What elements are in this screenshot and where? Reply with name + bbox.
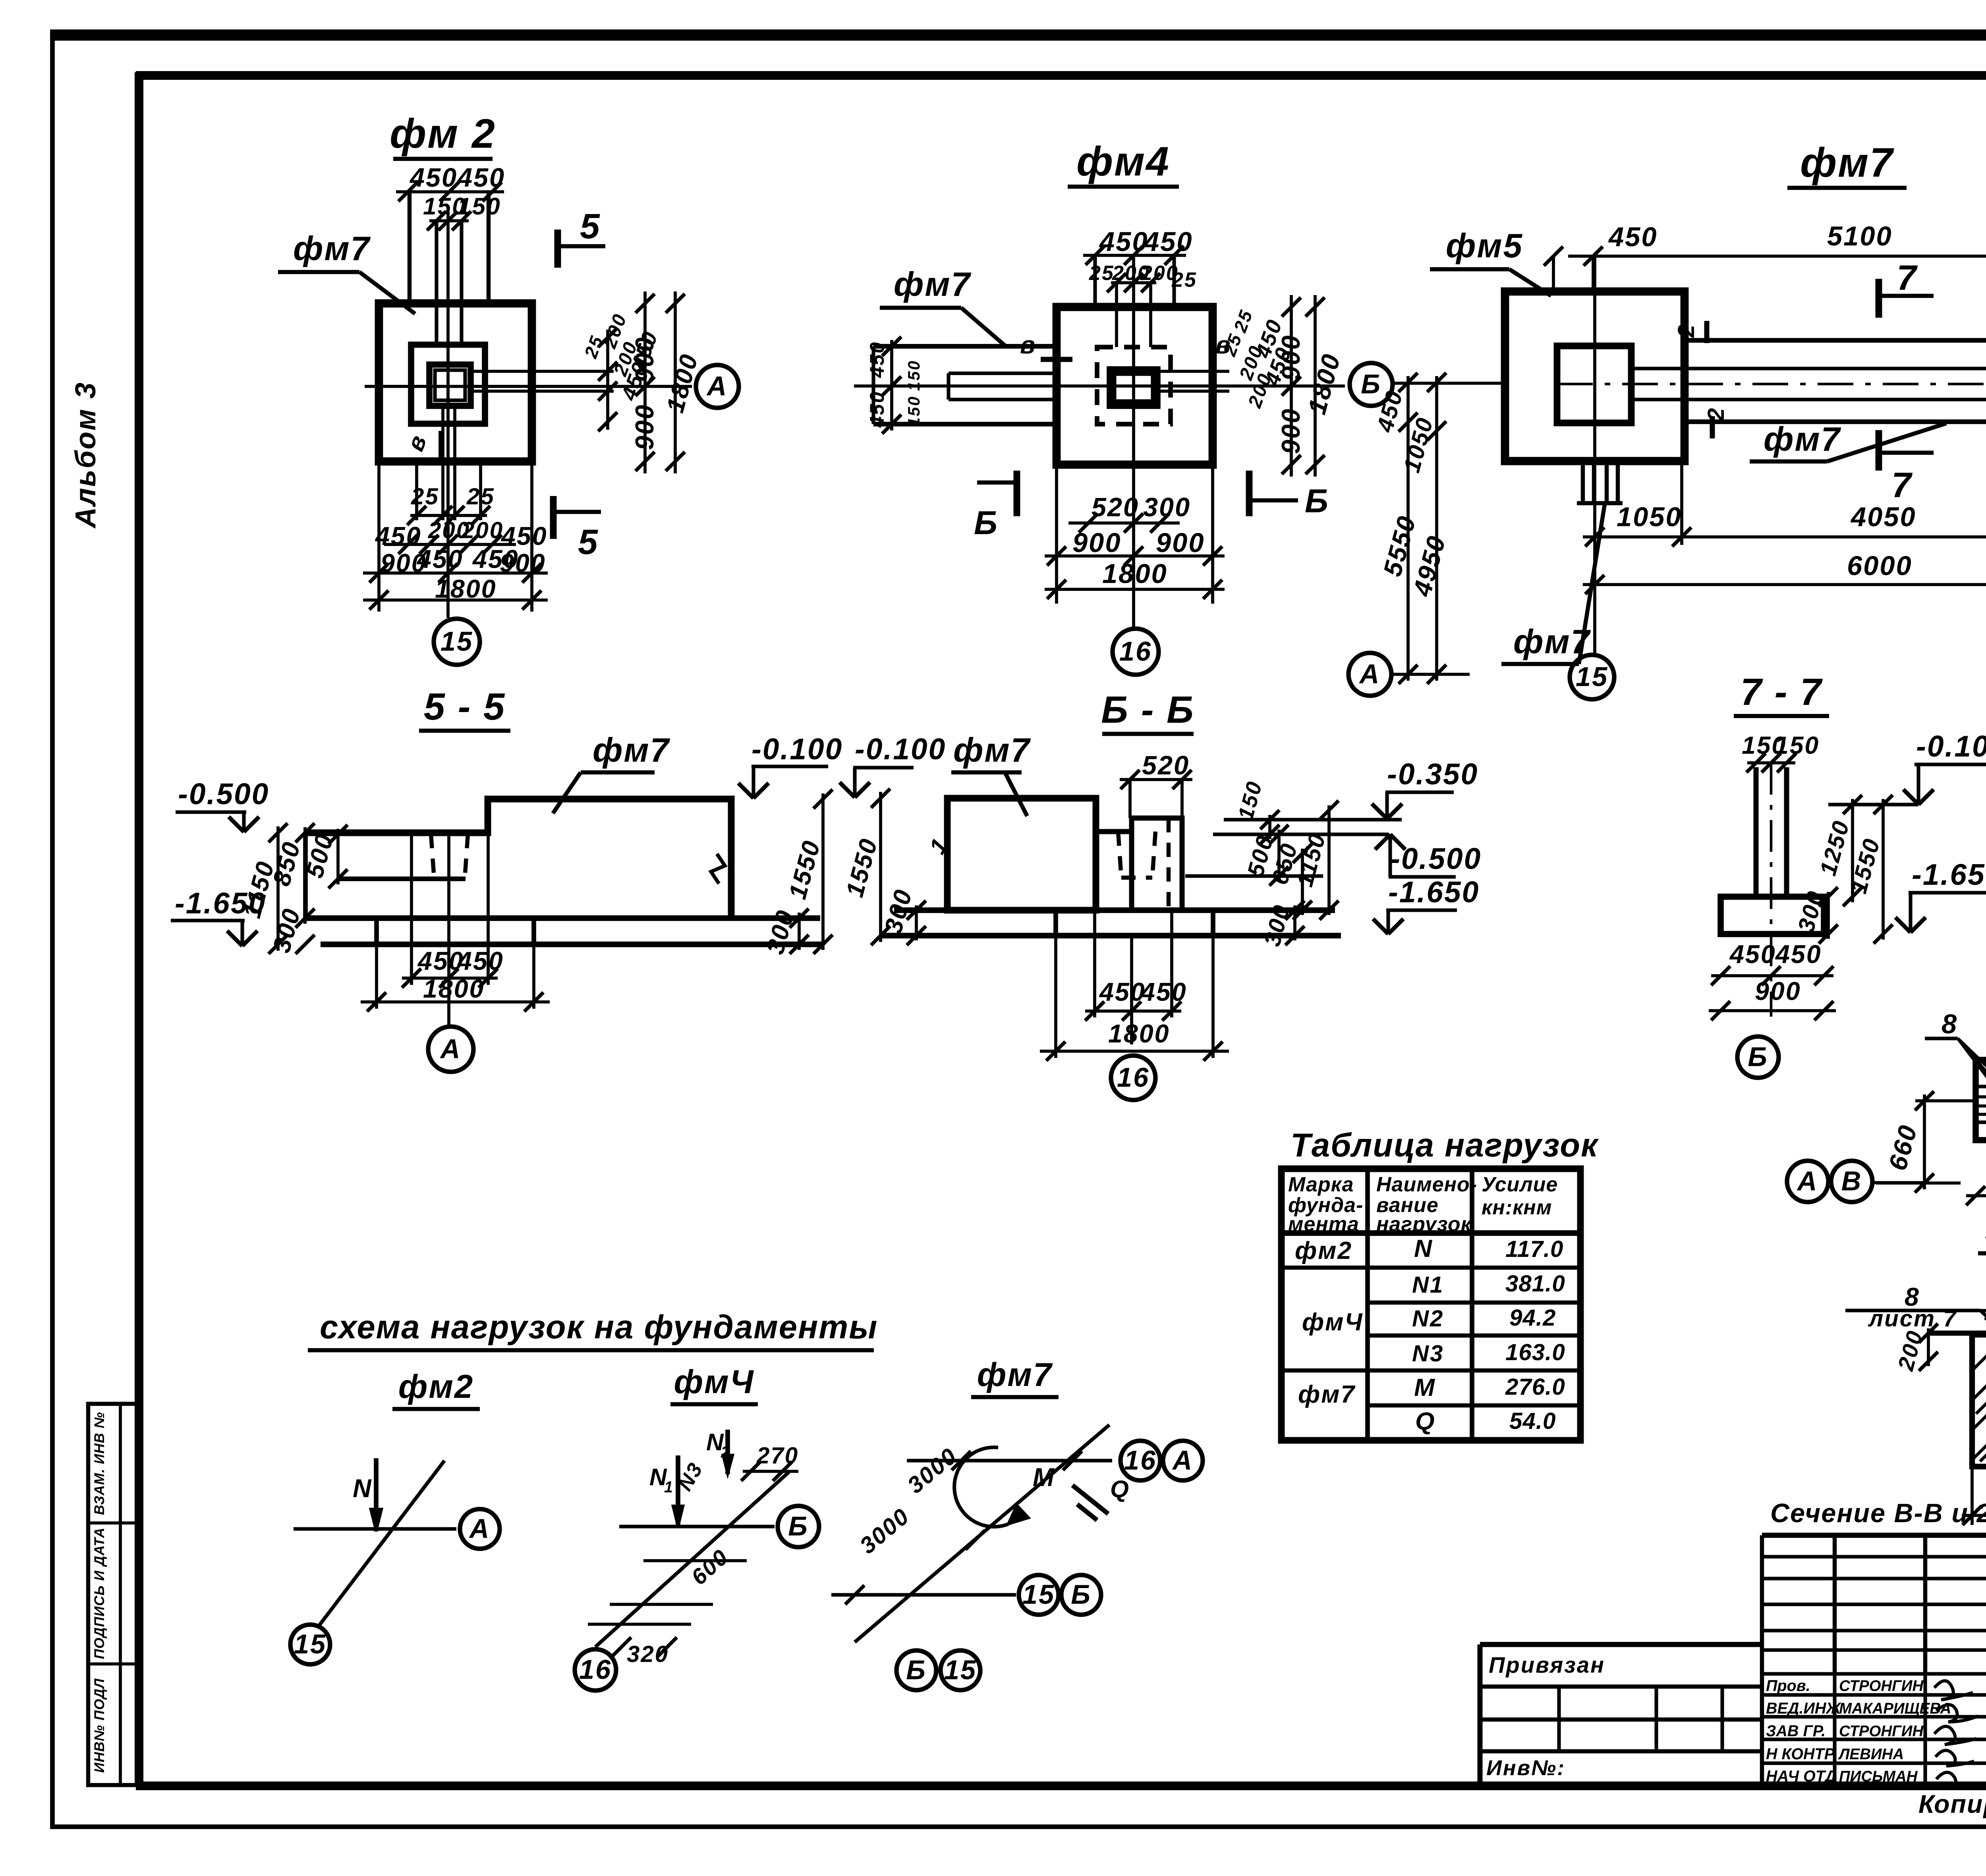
svg-text:450: 450	[1608, 222, 1658, 252]
svg-text:Б: Б	[1071, 1579, 1092, 1610]
svg-text:фм4: фм4	[1076, 139, 1170, 185]
svg-text:-1.650: -1.650	[1388, 875, 1480, 909]
svg-text:450: 450	[1099, 226, 1149, 257]
svg-text:450: 450	[1775, 940, 1822, 969]
plan FM4 slab outline	[1057, 307, 1213, 465]
svg-text:5: 5	[578, 522, 599, 562]
svg-text:94.2: 94.2	[1509, 1305, 1556, 1331]
section 6-6 axis and bottom dims	[1130, 936, 1133, 1044]
svg-text:900: 900	[630, 336, 659, 383]
svg-text:520: 520	[1092, 493, 1139, 522]
svg-text:15: 15	[1576, 661, 1608, 692]
plan FM2 axis line 15	[446, 207, 450, 618]
svg-text:Б: Б	[1748, 1041, 1768, 1072]
svg-text:320: 320	[627, 1641, 669, 1667]
section 6-6 level lines right	[1224, 818, 1402, 821]
axis circle A	[696, 365, 739, 408]
svg-text:фм7: фм7	[593, 731, 670, 769]
svg-text:фм5: фм5	[1446, 227, 1523, 265]
svg-text:15: 15	[944, 1654, 977, 1685]
load scheme FM7 force Q	[1072, 1485, 1108, 1514]
svg-text:16: 16	[1117, 1062, 1149, 1092]
svg-text:15: 15	[294, 1629, 326, 1659]
plan FM7 beam axis dashdot	[1557, 383, 1986, 386]
svg-text:ИНВ№ ПОДЛ: ИНВ№ ПОДЛ	[92, 1678, 107, 1773]
svg-text:270: 270	[756, 1443, 799, 1469]
svg-text:25: 25	[1230, 307, 1257, 336]
svg-text:М: М	[1033, 1463, 1055, 1492]
svg-text:25: 25	[466, 484, 495, 510]
svg-text:ПИСЬМАН: ПИСЬМАН	[1839, 1768, 1918, 1785]
svg-text:5100: 5100	[1827, 221, 1893, 251]
plan FM2 column section	[429, 365, 471, 406]
svg-text:150: 150	[1775, 732, 1820, 759]
section 9-9 block	[1930, 1331, 1986, 1336]
svg-text:54.0: 54.0	[1509, 1408, 1556, 1434]
svg-text:фмЧ: фмЧ	[674, 1363, 754, 1400]
title block signature rows	[1760, 1674, 1764, 1785]
load scheme FM2 axes	[294, 1527, 456, 1531]
svg-text:117.0: 117.0	[1505, 1236, 1563, 1262]
axis circle A bottom left	[1348, 653, 1391, 696]
svg-text:1550: 1550	[784, 837, 826, 902]
svg-text:1: 1	[664, 1478, 674, 1496]
title block revision table	[1760, 1535, 1764, 1674]
svg-text:М: М	[1414, 1374, 1436, 1401]
svg-text:-0.100: -0.100	[752, 732, 843, 766]
svg-text:Б: Б	[788, 1511, 809, 1541]
svg-text:лист 7: лист 7	[1868, 1306, 1957, 1332]
svg-text:9 - 9: 9 - 9	[1984, 1210, 1986, 1250]
svg-text:1050: 1050	[1617, 502, 1682, 532]
svg-text:7: 7	[1891, 465, 1913, 505]
section 7-7 stem	[1754, 767, 1759, 897]
svg-text:4050: 4050	[1850, 502, 1916, 532]
svg-text:фм 2: фм 2	[390, 111, 496, 157]
plan FM2 socket step	[411, 345, 485, 424]
svg-text:Инв№:: Инв№:	[1486, 1756, 1565, 1780]
load scheme FM7 axes	[907, 1459, 1112, 1462]
svg-text:Б: Б	[906, 1654, 927, 1685]
section 7-7 level -0.100	[1828, 803, 1918, 806]
plan FM4 column section	[1110, 369, 1157, 406]
section 5-5 socket dashed	[431, 834, 434, 879]
svg-text:А: А	[1797, 1166, 1818, 1196]
plan FM4 section mark B left	[1014, 471, 1020, 516]
plan FM7 section mark 7 top	[1876, 279, 1882, 318]
plan FM7 section marks 2 on beam	[1704, 321, 1710, 343]
svg-text:-0.100: -0.100	[855, 732, 946, 766]
svg-text:Б: Б	[974, 504, 999, 541]
plan FM4 axis line 16	[1132, 255, 1135, 627]
plan FM9 outline	[1976, 1060, 1986, 1140]
section 9-9 hatching	[1972, 1335, 1986, 1370]
svg-text:450: 450	[1729, 940, 1776, 969]
svg-text:фмЧ: фмЧ	[1302, 1309, 1364, 1336]
svg-text:СТРОНГИН: СТРОНГИН	[1839, 1723, 1924, 1740]
plan FM7 left foundation FM5 outline	[1505, 291, 1685, 461]
svg-text:520: 520	[1142, 751, 1190, 780]
svg-text:МАКАРИЩЕВА: МАКАРИЩЕВА	[1839, 1700, 1951, 1717]
svg-text:фм2: фм2	[398, 1368, 474, 1405]
svg-text:900: 900	[1755, 977, 1801, 1006]
svg-text:450: 450	[866, 391, 888, 428]
svg-text:3000: 3000	[855, 1503, 914, 1559]
plan FM4 right dimension chain	[1157, 370, 1229, 373]
svg-text:1800: 1800	[1108, 1019, 1170, 1048]
axis circle B under 7-7	[1737, 1036, 1779, 1078]
svg-text:15: 15	[440, 626, 473, 656]
svg-text:450: 450	[866, 341, 888, 378]
svg-text:фм7: фм7	[1764, 421, 1841, 458]
svg-text:Б - Б: Б - Б	[1101, 689, 1195, 731]
plan FM4 axis line B	[854, 384, 1345, 388]
svg-text:Н КОНТР: Н КОНТР	[1766, 1745, 1835, 1763]
svg-text:-1.650: -1.650	[1912, 858, 1986, 891]
section 5-5 outline	[305, 799, 731, 918]
plan FM7 axis 15 line and circle	[1593, 256, 1596, 654]
section 9-9 dim 200	[1927, 1328, 1930, 1366]
svg-text:А: А	[1359, 658, 1381, 689]
section 6-6 socket dashed	[1118, 832, 1121, 878]
svg-text:1800: 1800	[1102, 558, 1168, 589]
svg-text:в: в	[401, 430, 432, 454]
svg-text:в: в	[1020, 332, 1036, 359]
svg-text:фм7: фм7	[953, 731, 1031, 769]
plan FM2 section mark 5 top	[554, 230, 561, 268]
load scheme FM7 circles 16 A	[1121, 1441, 1160, 1480]
svg-text:ПОДПИСЬ И ДАТА: ПОДПИСЬ И ДАТА	[92, 1527, 107, 1659]
section 5-5 ledge line	[340, 876, 466, 881]
plan FM2 bottom dimensions	[415, 461, 418, 520]
svg-text:7: 7	[1897, 258, 1918, 297]
section 5-5 axis and bottom dims	[447, 833, 450, 1025]
svg-text:381.0: 381.0	[1505, 1271, 1565, 1297]
svg-text:N1: N1	[1412, 1272, 1444, 1298]
svg-text:2: 2	[721, 1444, 731, 1461]
svg-text:фм7: фм7	[293, 230, 371, 268]
svg-text:А: А	[440, 1033, 462, 1064]
svg-text:900: 900	[1277, 334, 1305, 381]
svg-text:150: 150	[904, 396, 923, 427]
svg-text:16: 16	[579, 1654, 612, 1685]
svg-text:8: 8	[1942, 1009, 1958, 1039]
plan FM7 section mark 7 bottom	[1876, 430, 1882, 471]
axis circle 16 below FM4	[1113, 629, 1159, 675]
svg-text:Сечение В-В и 2-2 см. лист 7.: Сечение В-В и 2-2 см. лист 7.	[1770, 1499, 1986, 1528]
svg-text:N3: N3	[1412, 1341, 1444, 1366]
svg-text:Б: Б	[1305, 483, 1329, 519]
axis line B into FM7	[1392, 382, 1505, 385]
svg-text:1800: 1800	[423, 975, 485, 1003]
svg-text:А: А	[706, 371, 728, 401]
svg-text:150: 150	[1234, 778, 1267, 822]
plan FM4 bottom dimensions	[1055, 465, 1058, 604]
section 5-5 left dimension chain	[276, 826, 280, 951]
svg-text:фм7: фм7	[977, 1356, 1053, 1393]
svg-text:600: 600	[686, 1544, 733, 1590]
load scheme FM4 axes	[619, 1525, 775, 1528]
load table grid	[1281, 1169, 1580, 1440]
load scheme FM2 circle A	[460, 1509, 500, 1549]
svg-text:ЗАВ ГР.: ЗАВ ГР.	[1766, 1722, 1826, 1740]
plan FM7 beam stub below FM5	[1581, 461, 1585, 503]
svg-text:1150: 1150	[1292, 830, 1331, 889]
svg-text:N: N	[353, 1474, 373, 1503]
svg-text:ВЕД.ИНЖ: ВЕД.ИНЖ	[1766, 1700, 1841, 1717]
svg-text:фм7: фм7	[894, 266, 972, 303]
load scheme FM4 circle B	[778, 1506, 819, 1547]
svg-text:150: 150	[458, 193, 501, 220]
svg-text:276.0: 276.0	[1505, 1374, 1565, 1400]
plan FM4 section mark B right	[1246, 471, 1253, 516]
load scheme FM7 circles 15 B	[1019, 1575, 1059, 1615]
section 7-7 right dims	[1851, 799, 1854, 902]
section 6-6 block outline	[947, 798, 1096, 910]
title block signatures squiggles	[1934, 1681, 1973, 1700]
plan FM2 axis line A	[365, 385, 692, 388]
plan FM2 section mark 5 bottom	[550, 496, 557, 539]
section 6-6 pedestal and collar	[1096, 829, 1132, 834]
load scheme FM7 circles B 15 lower	[896, 1650, 936, 1690]
svg-text:5 - 5: 5 - 5	[424, 685, 506, 728]
load scheme FM2 circle 15	[290, 1625, 330, 1664]
svg-text:15: 15	[1022, 1579, 1055, 1610]
section 5-5 right dimension chain	[798, 913, 801, 950]
svg-text:1800: 1800	[1302, 350, 1346, 417]
svg-text:25: 25	[1089, 262, 1115, 285]
svg-text:Наимено-: Наимено-	[1376, 1173, 1477, 1196]
svg-text:СТРОНГИН: СТРОНГИН	[1839, 1677, 1924, 1695]
load scheme FM4 circle 16	[575, 1649, 616, 1691]
svg-text:Q: Q	[1415, 1408, 1436, 1435]
plan FM9 axis circles A V	[1787, 1161, 1828, 1202]
title block left part	[1480, 1642, 1762, 1647]
drawing frame	[136, 71, 1986, 80]
plan FM4 socket dashed	[1097, 347, 1171, 424]
section 7-7 footing pad	[1721, 897, 1824, 934]
svg-text:900: 900	[630, 404, 659, 450]
svg-text:кн:кнм: кн:кнм	[1482, 1196, 1552, 1219]
svg-text:Б: Б	[1361, 369, 1381, 399]
load scheme FM4 force N1	[676, 1455, 680, 1527]
svg-text:Пров.: Пров.	[1766, 1677, 1810, 1695]
plan FM7 left axis dim chain	[1406, 376, 1410, 681]
svg-text:660: 660	[1883, 1121, 1923, 1173]
svg-text:N2: N2	[1412, 1306, 1444, 1332]
svg-text:163.0: 163.0	[1505, 1339, 1565, 1365]
svg-text:Альбом 3: Альбом 3	[70, 381, 102, 529]
svg-text:16: 16	[1119, 636, 1152, 666]
plan FM2 right dimension chain 900 900 1800	[471, 370, 614, 373]
svg-text:нагрузок: нагрузок	[1376, 1213, 1472, 1236]
axis circle A under 5-5	[428, 1027, 473, 1072]
plan FM2 beam stub from FM7	[408, 192, 411, 303]
svg-text:900: 900	[1072, 527, 1122, 558]
svg-text:7 - 7: 7 - 7	[1741, 671, 1823, 713]
svg-text:фм7: фм7	[1298, 1381, 1356, 1408]
svg-text:Копировал Коршунова: Копировал Коршунова	[1918, 1790, 1986, 1818]
svg-text:5: 5	[580, 206, 601, 246]
plan FM7 beam outline	[1685, 338, 1986, 343]
svg-text:850: 850	[268, 838, 306, 889]
plan FM9 hatch lines	[1976, 1085, 1986, 1088]
svg-text:N: N	[1414, 1235, 1433, 1262]
svg-text:1550: 1550	[841, 835, 883, 900]
svg-text:ЛЕВИНА: ЛЕВИНА	[1838, 1746, 1904, 1763]
axis circle 16 under 6-6	[1111, 1056, 1155, 1100]
axis circle 15	[434, 619, 480, 665]
section 5-5 break mark	[711, 854, 725, 884]
svg-text:А: А	[1172, 1445, 1194, 1475]
plan FM2 slab outline	[379, 303, 532, 461]
svg-text:6000: 6000	[1847, 550, 1913, 581]
svg-text:Таблица нагрузок: Таблица нагрузок	[1291, 1127, 1599, 1164]
section 6-6 slab	[894, 907, 1335, 913]
section 6-6 small dims right	[1268, 815, 1271, 839]
svg-text:мента: мента	[1288, 1213, 1359, 1236]
plan FM9 dim 660	[1915, 1099, 1976, 1102]
svg-text:Усилие: Усилие	[1482, 1173, 1558, 1196]
svg-text:900: 900	[1277, 408, 1305, 454]
svg-text:-0.100: -0.100	[1916, 730, 1986, 763]
svg-text:фм2: фм2	[1295, 1237, 1352, 1264]
svg-text:2: 2	[1703, 407, 1729, 421]
svg-text:450: 450	[1143, 226, 1193, 257]
svg-text:схема нагрузок на фундаменты: схема нагрузок на фундаменты	[320, 1309, 878, 1345]
svg-text:1250: 1250	[1815, 817, 1854, 878]
svg-text:300: 300	[879, 886, 918, 936]
svg-text:ВЗАМ. ИНВ №: ВЗАМ. ИНВ №	[92, 1412, 107, 1515]
svg-text:Привязан: Привязан	[1489, 1652, 1605, 1677]
svg-text:16: 16	[1124, 1445, 1157, 1475]
load scheme FM4 force N2	[725, 1430, 730, 1474]
left margin stamp	[88, 1404, 139, 1785]
svg-text:В: В	[1841, 1166, 1862, 1196]
svg-text:-0.350: -0.350	[1387, 757, 1478, 791]
load scheme FM7 moment M	[954, 1447, 1008, 1527]
svg-text:Марка: Марка	[1288, 1173, 1354, 1196]
svg-text:900: 900	[1156, 527, 1205, 558]
plan FM4 beam from FM7 left	[873, 344, 1057, 349]
section 5-5 slab	[304, 915, 820, 921]
section 6-6 left dimension chain	[879, 792, 882, 942]
svg-text:Q: Q	[1110, 1475, 1130, 1502]
section 9-9 dashdot diagonal	[1980, 1394, 1986, 1461]
svg-text:фм7: фм7	[1800, 140, 1894, 186]
section 9-9 dim 350	[1971, 1467, 1974, 1525]
svg-text:-0.500: -0.500	[178, 777, 269, 811]
axis circle B right of FM4	[1350, 363, 1393, 406]
svg-text:2: 2	[1673, 324, 1699, 338]
svg-text:НАЧ ОТД: НАЧ ОТД	[1766, 1768, 1836, 1785]
svg-text:А: А	[469, 1513, 491, 1544]
